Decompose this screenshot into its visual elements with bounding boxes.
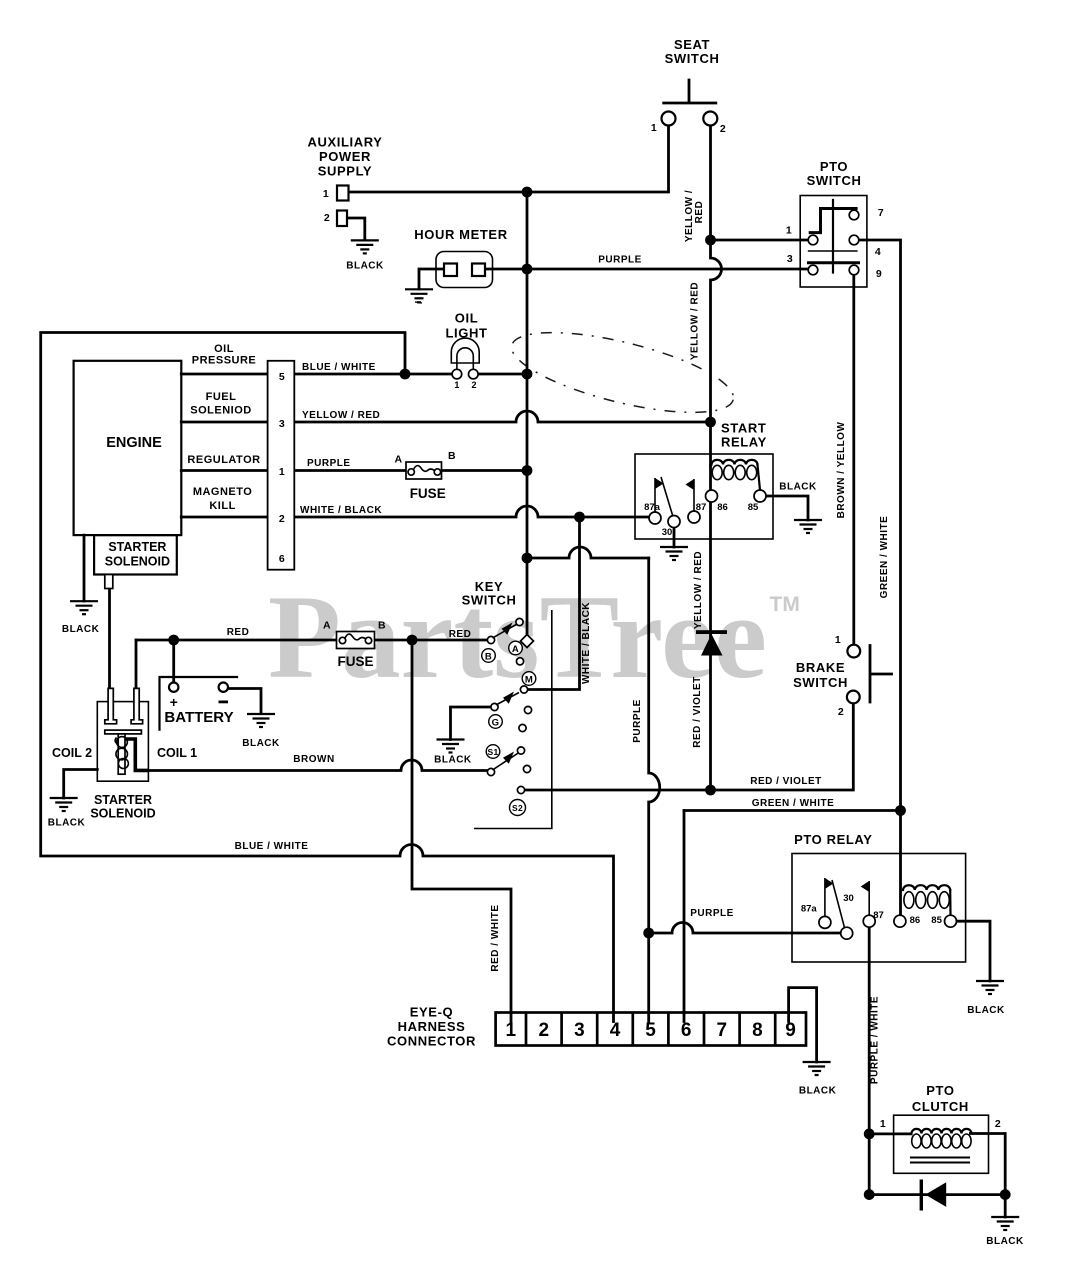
svg-text:5: 5 (645, 1020, 656, 1041)
svg-text:TM: TM (770, 593, 800, 616)
svg-text:1: 1 (651, 122, 657, 134)
node blue/white bus (522, 369, 533, 380)
svg-text:BLUE / WHITE: BLUE / WHITE (235, 841, 309, 852)
starter solenoid label box (94, 535, 177, 574)
svg-text:S2: S2 (512, 803, 523, 813)
wire pto relay 85 to ground (957, 921, 991, 981)
svg-text:86: 86 (717, 502, 728, 513)
start relay box (635, 454, 773, 539)
wire start relay 85 to ground (766, 496, 808, 520)
svg-text:FUEL: FUEL (206, 391, 237, 403)
key circled letter A (509, 641, 523, 655)
node clutch pin1 (864, 1129, 875, 1140)
node yellow/red engine/relay (705, 417, 716, 428)
ground coil2 BLACK (50, 798, 78, 811)
key circled letter S1 (486, 745, 500, 759)
pto relay 87 arm (868, 881, 870, 915)
start relay 85 lead (758, 465, 761, 490)
svg-text:A: A (395, 454, 403, 466)
svg-text:PTO: PTO (926, 1083, 954, 1098)
ground key switch G BLACK (437, 740, 465, 753)
svg-text:SWITCH: SWITCH (462, 593, 517, 608)
wire white/black engine pin2 with hop over bus to relay 87a (294, 506, 649, 517)
wire red/white drop to harness pin1 (412, 640, 511, 1013)
svg-text:REGULATOR: REGULATOR (187, 454, 260, 466)
svg-text:YELLOW / RED: YELLOW / RED (690, 282, 701, 360)
PTO CLUTCH (894, 1115, 989, 1210)
svg-text:+: + (170, 694, 178, 710)
svg-text:1: 1 (506, 1020, 517, 1041)
svg-text:7: 7 (878, 207, 884, 219)
pto relay 87a arm (824, 878, 826, 916)
svg-text:BROWN: BROWN (293, 754, 334, 765)
svg-text:HARNESS: HARNESS (398, 1019, 466, 1034)
wire red left leg into solenoid terminal (135, 640, 138, 688)
node purple pin5 branch (643, 928, 654, 939)
svg-text:86: 86 (910, 915, 921, 926)
svg-text:PTO: PTO (820, 159, 848, 174)
wire red battery row (136, 639, 337, 642)
svg-text:RED: RED (449, 629, 472, 640)
key right contact row1 (524, 706, 531, 713)
wire clutch diode row (869, 1193, 1005, 1196)
svg-text:BLUE / WHITE: BLUE / WHITE (302, 362, 376, 373)
ground harness pin9 BLACK (803, 1062, 831, 1075)
pto switch box (800, 196, 867, 288)
wire fuse2 B to key B (375, 639, 488, 642)
wire aux power 2 to ground (347, 218, 365, 240)
node blue/white loop (400, 369, 411, 380)
wire clutch ground leg (1004, 1195, 1007, 1217)
clutch core lines (910, 1157, 970, 1159)
svg-text:G: G (492, 718, 500, 729)
oil light pin 2 (469, 369, 479, 379)
svg-text:2: 2 (324, 212, 330, 224)
svg-text:FUSE: FUSE (337, 654, 373, 669)
svg-text:SEAT: SEAT (674, 37, 710, 52)
dashed highlight ellipse (415, 302, 740, 429)
wire battery minus to ground (228, 689, 261, 714)
key right contact s1 row (523, 765, 530, 772)
pto relay contact 87a (819, 916, 831, 928)
start relay contact 85 (754, 490, 766, 502)
PTO SWITCH (800, 196, 867, 288)
ground pto relay 85 BLACK (976, 981, 1004, 994)
wire yellow/red bus to start relay coil (709, 422, 712, 465)
solenoid box (97, 702, 148, 782)
svg-text:PURPLE: PURPLE (307, 458, 351, 469)
pto relay coil (903, 885, 950, 890)
svg-text:SOLENOID: SOLENOID (105, 555, 170, 569)
pto relay contact 86 (894, 915, 906, 927)
node clutch diode right (1000, 1189, 1011, 1200)
wire fuse B to main bus (442, 469, 528, 472)
ground battery minus BLACK (247, 714, 275, 727)
svg-text:RED / VIOLET: RED / VIOLET (692, 676, 703, 748)
svg-text:START: START (721, 421, 766, 436)
solenoid spring (117, 737, 128, 748)
svg-text:BLACK: BLACK (967, 1005, 1005, 1016)
svg-text:3: 3 (787, 253, 793, 265)
seat switch pin 1 (662, 112, 676, 126)
AUXILIARY POWER SUPPLY pins (337, 186, 349, 227)
svg-text:BLACK: BLACK (986, 1236, 1024, 1247)
svg-text:OIL: OIL (455, 311, 478, 326)
key right contact row2 (519, 724, 526, 731)
svg-text:PTO RELAY: PTO RELAY (794, 832, 872, 847)
svg-text:BATTERY: BATTERY (164, 709, 233, 726)
svg-text:PURPLE: PURPLE (598, 255, 642, 266)
wire purple vertical to harness pin5 with hop over s2 wire (649, 558, 660, 1013)
svg-text:1: 1 (880, 1118, 886, 1130)
svg-text:9: 9 (876, 268, 882, 280)
svg-text:6: 6 (279, 553, 285, 565)
node clutch diode left (864, 1189, 875, 1200)
svg-text:2: 2 (539, 1020, 550, 1041)
ENGINE block (74, 361, 295, 589)
svg-text:FUSE: FUSE (410, 486, 446, 501)
svg-text:4: 4 (610, 1020, 621, 1041)
wire hour meter left to ground (419, 269, 444, 289)
engine wires to connector (181, 373, 267, 376)
wire green/white pto pin4 down to pto relay coil (859, 240, 901, 915)
diode on yellow/red to red/violet line (696, 630, 727, 655)
aux pin 2 square (337, 211, 347, 227)
start relay 87a arm (654, 478, 656, 512)
node purple fuse/bus (522, 465, 533, 476)
node green/white branch (895, 805, 906, 816)
pto relay contact 85 (945, 915, 957, 927)
svg-text:9: 9 (785, 1020, 796, 1041)
wire purple engine pin1 to fuse A (294, 469, 406, 472)
solenoid contact bracket (125, 739, 148, 770)
svg-text:B: B (448, 450, 456, 462)
start relay coil (712, 460, 758, 465)
svg-text:2: 2 (838, 706, 844, 718)
solenoid right terminal (131, 688, 143, 723)
wire purple to pto relay 30 with hop over green/white (649, 923, 841, 933)
wire yellow/red engine pin3 with hop over bus (294, 411, 710, 422)
node red battery plus (168, 635, 179, 646)
start relay contact 87 (688, 511, 700, 523)
HOUR METER (436, 252, 493, 288)
key circled letter B (482, 649, 496, 663)
node yellow/red seat to pto1 (705, 235, 716, 246)
key B arm tip contact (516, 618, 523, 625)
wire pto clutch pin2 down (970, 1134, 1005, 1195)
svg-text:A: A (512, 644, 519, 655)
svg-text:MAGNETO: MAGNETO (193, 486, 253, 498)
svg-text:M: M (525, 675, 533, 686)
svg-text:3: 3 (279, 418, 285, 430)
ground aux power BLACK (351, 240, 379, 253)
start relay contact 30 (668, 516, 680, 528)
wire pto relay 87 down purple/white to clutch (868, 927, 871, 1194)
svg-text:PURPLE: PURPLE (632, 699, 643, 743)
key G contact (491, 703, 498, 710)
wire main vertical bus (526, 192, 529, 635)
STARTER SOLENOID (lower) (97, 688, 148, 781)
svg-text:COIL 1: COIL 1 (157, 746, 197, 760)
pto switch pin 4 (849, 235, 859, 245)
key circled letter M (522, 672, 536, 686)
svg-text:7: 7 (717, 1020, 728, 1041)
pto relay box (792, 854, 966, 963)
clutch flyback diode (920, 1180, 923, 1211)
battery bracket (160, 677, 238, 730)
svg-text:1: 1 (279, 466, 285, 478)
FUSE red line (337, 632, 375, 649)
svg-text:GREEN / WHITE: GREEN / WHITE (879, 516, 890, 599)
svg-text:GREEN / WHITE: GREEN / WHITE (752, 798, 835, 809)
hour meter terminal right (472, 264, 485, 277)
key B arm (493, 624, 519, 639)
pto relay 85 lead (949, 890, 951, 915)
engine connector strip (268, 361, 295, 570)
svg-text:BLACK: BLACK (62, 624, 100, 635)
wire brown solenoid to key S1 with hop over red/white (148, 760, 487, 771)
wire aux power 1 to main node (349, 191, 528, 194)
key M contact (520, 686, 527, 693)
svg-text:HOUR METER: HOUR METER (414, 227, 507, 242)
seat switch pin 2 (703, 112, 717, 126)
svg-text:87: 87 (873, 910, 884, 921)
node aux/seat/bus (522, 187, 533, 198)
key B contact (487, 636, 494, 643)
solenoid T plunger (105, 730, 142, 734)
svg-text:1: 1 (786, 225, 792, 237)
aux pin 1 square (337, 186, 349, 201)
svg-text:BLACK: BLACK (48, 818, 86, 829)
svg-text:5: 5 (279, 371, 285, 383)
key circled letter S2 (510, 800, 526, 816)
svg-text:1: 1 (835, 634, 841, 646)
svg-text:6: 6 (681, 1020, 692, 1041)
svg-text:2: 2 (279, 513, 285, 525)
brake switch pin 2 (847, 691, 860, 704)
svg-text:87a: 87a (644, 502, 661, 513)
OIL LIGHT (451, 338, 479, 379)
svg-text:4: 4 (875, 246, 881, 258)
starter solenoid stub terminal (105, 575, 113, 589)
wire starter solenoid stem from engine (108, 589, 111, 689)
svg-text:KILL: KILL (209, 500, 235, 512)
svg-text:RELAY: RELAY (721, 435, 767, 450)
svg-text:RED / WHITE: RED / WHITE (490, 904, 501, 971)
ground hour meter (405, 289, 433, 302)
svg-text:YELLOW / RED: YELLOW / RED (693, 551, 704, 629)
svg-text:30: 30 (843, 893, 854, 904)
svg-text:8: 8 (752, 1020, 763, 1041)
wire start relay 30 to ground (673, 528, 676, 548)
svg-text:S1: S1 (488, 747, 499, 757)
wire start relay 86 through diode to red/violet node (709, 465, 712, 790)
battery plus terminal (169, 683, 178, 692)
svg-text:POWER: POWER (319, 149, 371, 164)
svg-text:2: 2 (995, 1118, 1001, 1130)
node red/white tap (407, 635, 418, 646)
FUSE purple line (406, 462, 442, 479)
svg-text:COIL 2: COIL 2 (52, 746, 92, 760)
svg-text:LIGHT: LIGHT (446, 326, 488, 341)
svg-text:BLACK: BLACK (779, 482, 817, 493)
svg-text:B: B (378, 620, 386, 632)
svg-text:85: 85 (748, 502, 759, 513)
PTO RELAY (792, 854, 966, 963)
ground engine leg BLACK (70, 601, 98, 614)
key S1 arm (493, 753, 520, 771)
start relay 30 arm (661, 477, 673, 515)
svg-text:BLACK: BLACK (242, 738, 280, 749)
svg-text:WHITE / BLACK: WHITE / BLACK (581, 602, 592, 684)
node red/violet diode row (705, 785, 716, 796)
svg-text:PURPLE / WHITE: PURPLE / WHITE (870, 996, 881, 1084)
svg-text:1: 1 (323, 188, 329, 200)
svg-text:3: 3 (574, 1020, 585, 1041)
node white/black key M branch (574, 512, 585, 523)
key S1 arm tip contact (517, 747, 524, 754)
svg-text:SWITCH: SWITCH (665, 51, 720, 66)
EYE-Q HARNESS CONNECTOR (496, 1013, 806, 1046)
svg-text:A: A (323, 620, 331, 632)
svg-text:30: 30 (662, 527, 673, 538)
start relay contact 87a (649, 512, 661, 524)
pto switch rocker bars (832, 200, 834, 273)
harness pin wire stubs inside cells (510, 1013, 513, 1022)
svg-text:WHITE / BLACK: WHITE / BLACK (300, 505, 382, 516)
wire oil light 2 to main bus (478, 373, 527, 376)
KEY SWITCH (474, 610, 552, 829)
svg-text:85: 85 (931, 915, 942, 926)
wire engine left leg to ground (83, 535, 86, 601)
hour meter terminal left (444, 264, 457, 277)
key A terminal diamond (521, 635, 534, 648)
START RELAY (635, 454, 773, 539)
node hour meter/bus (522, 264, 533, 275)
ground start relay 30 (660, 547, 688, 560)
node purple branch (522, 553, 533, 564)
label battery minus (219, 701, 229, 704)
key S1 contact (487, 768, 494, 775)
svg-text:2: 2 (471, 380, 476, 390)
watermark PartsTree (268, 570, 800, 703)
key G arm (496, 693, 519, 706)
svg-text:PRESSURE: PRESSURE (192, 355, 257, 367)
wire yellow/red seat switch 2 down with hop over purple (711, 126, 722, 423)
wire pto clutch pin1 row (869, 1133, 911, 1136)
svg-text:STARTER: STARTER (94, 793, 152, 807)
svg-text:1: 1 (454, 380, 459, 390)
svg-text:87a: 87a (801, 904, 818, 915)
clutch box (894, 1115, 989, 1173)
svg-text:ENGINE: ENGINE (106, 435, 162, 451)
start relay 87 arm (693, 479, 695, 511)
oil light bulb shape (451, 338, 479, 363)
svg-text:CLUTCH: CLUTCH (912, 1099, 969, 1114)
svg-text:SWITCH: SWITCH (807, 173, 862, 188)
wire blue/white long loop to harness pin4 (41, 333, 614, 1013)
pto relay contact 30 (841, 927, 853, 939)
pto switch pin 3 (808, 265, 818, 275)
pto relay contact 87 (863, 915, 875, 927)
wire blue/white engine pin5 to oil light (294, 373, 452, 376)
svg-text:87: 87 (696, 502, 707, 513)
BRAKE SWITCH (847, 645, 892, 704)
clutch coil (912, 1129, 972, 1134)
brake switch pin 1 (847, 645, 860, 658)
pto switch pin 1 (808, 235, 818, 245)
svg-text:BROWN / YELLOW: BROWN / YELLOW (836, 422, 847, 519)
svg-text:SOLENOID: SOLENOID (90, 807, 155, 821)
svg-text:BLACK: BLACK (799, 1086, 837, 1097)
svg-text:BRAKE: BRAKE (796, 660, 845, 675)
wire green/white horizontal branch (684, 809, 901, 812)
hour meter body (436, 252, 493, 288)
wire brown/yellow pto pin9 to brake switch 1 (852, 275, 855, 645)
wire white/black branch down to key M (528, 517, 580, 690)
svg-text:YELLOW / RED: YELLOW / RED (302, 410, 380, 421)
key contact below A (516, 658, 523, 665)
svg-text:STARTER: STARTER (108, 540, 166, 554)
svg-text:B: B (485, 652, 492, 663)
svg-text:RED: RED (694, 201, 705, 224)
SEAT SWITCH (662, 80, 718, 126)
svg-text:EYE-Q: EYE-Q (410, 1005, 453, 1020)
wire seat switch 1 to main node (527, 126, 669, 193)
pto switch pin 7 (849, 210, 859, 220)
solenoid left terminal (105, 688, 117, 723)
BATTERY (160, 677, 238, 730)
svg-text:SUPPLY: SUPPLY (318, 164, 372, 179)
svg-text:RED / VIOLET: RED / VIOLET (750, 776, 822, 787)
wire purple hour meter to pto pin3 (527, 268, 808, 271)
wire hour meter right (485, 268, 528, 271)
seat switch plunger (664, 80, 716, 103)
wire key S2 to red/violet row (525, 789, 711, 792)
key S2 contact (517, 786, 524, 793)
wire green/white down to harness pin6 (683, 811, 686, 1013)
wire purple branch with hop over white/black (527, 547, 649, 558)
svg-text:OIL: OIL (214, 343, 234, 355)
wire pto switch pin1 (711, 239, 809, 242)
svg-text:SOLENIOD: SOLENIOD (190, 405, 251, 417)
svg-text:2: 2 (720, 123, 726, 135)
svg-text:SWITCH: SWITCH (793, 675, 848, 690)
oil light pin 1 (452, 369, 462, 379)
pto relay 30 arm (832, 880, 845, 928)
wire key G to ground (451, 707, 492, 740)
pto switch pin 9 (849, 265, 859, 275)
svg-text:CONNECTOR: CONNECTOR (387, 1034, 476, 1049)
key switch partial outline (474, 610, 552, 829)
svg-text:AUXILIARY: AUXILIARY (308, 135, 383, 150)
svg-text:PURPLE: PURPLE (690, 908, 734, 919)
wire battery plus up (172, 640, 175, 683)
svg-text:BLACK: BLACK (434, 755, 472, 766)
start relay contact 86 (706, 490, 718, 502)
wire red/violet node to brake switch 2 (711, 704, 854, 791)
wire harness pin9 to ground (789, 988, 817, 1062)
svg-text:RED: RED (227, 627, 250, 638)
svg-text:BLACK: BLACK (346, 261, 384, 272)
key circled letter G (489, 715, 503, 729)
wire coil2 to ground (64, 770, 98, 799)
battery minus terminal (219, 683, 228, 692)
brake switch plunger (870, 646, 892, 703)
ground start relay 85 BLACK (794, 520, 822, 533)
ground pto clutch BLACK (991, 1217, 1019, 1230)
